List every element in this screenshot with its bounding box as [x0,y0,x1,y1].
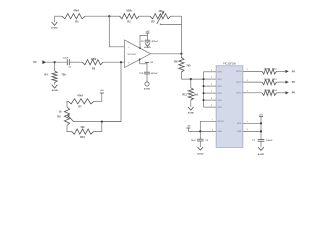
resistor R13 [243,79,286,85]
node: output junction [180,53,182,55]
node P6 output [285,91,295,95]
wire: bias to non-inverting input [102,62,121,121]
svg-text:OUT0: OUT0 [236,71,242,73]
wire: tied input pins trunk [203,72,217,107]
svg-text:AGND: AGND [144,88,151,91]
svg-text:47k4: 47k4 [73,10,79,13]
svg-text:OUT1: OUT1 [236,82,242,84]
svg-text:+5V: +5V [146,31,150,33]
svg-text:VSS: VSS [237,131,242,133]
power -5V (IC) [186,126,216,132]
svg-text:MCP6001: MCP6001 [128,54,136,56]
svg-text:10k: 10k [158,10,163,13]
resistor R11 [182,79,198,100]
svg-text:-5V: -5V [150,62,154,64]
svg-text:+5V: +5V [259,114,263,116]
node: VDD junction [260,122,262,124]
node: divider junction [190,78,192,80]
svg-text:100k: 100k [126,10,132,13]
wire: V- pin [139,59,147,73]
wire: MCLR pin tie [200,119,216,131]
svg-text:100R: 100R [264,90,270,92]
IC pin labels [218,71,243,133]
svg-text:+5V: +5V [100,90,104,92]
ground AGND (R11) [188,100,195,114]
svg-text:75k: 75k [62,73,67,76]
svg-text:MCLR: MCLR [218,121,224,123]
ground AGND (C6) [197,141,204,156]
svg-text:10uF: 10uF [191,140,197,142]
svg-text:100R: 100R [264,79,270,81]
power -5V (op-amp) [145,62,154,64]
resistor R2 [109,10,150,24]
pin numbers (left upper) [211,70,213,107]
ground AGND (C5) [144,42,151,49]
resistor R14 [243,89,286,96]
wire: VDD pin [243,122,261,124]
resistor R1 [55,10,110,24]
op-amp U1 MCP6001 [125,40,151,68]
svg-text:AGND: AGND [197,153,204,156]
svg-text:AGND: AGND [258,153,265,156]
svg-text:-5V: -5V [187,126,191,128]
resistor R10 [67,122,102,139]
capacitor C6 [191,131,209,142]
svg-text:R10: R10 [80,136,85,139]
svg-text:AGND: AGND [188,111,195,114]
node: non-inverting input junction [120,61,122,63]
wire: feedback to inverting input [109,16,124,47]
svg-text:100k: 100k [91,58,97,61]
svg-text:1.0uF: 1.0uF [63,57,69,59]
capacitor C5 [141,40,159,43]
IC U2 PIC10F206 [216,63,243,148]
potentiometer R9 [57,107,73,126]
svg-text:47k4: 47k4 [77,94,83,97]
svg-text:1k0: 1k0 [194,94,199,97]
wire: top chain down to op-amp output [181,16,183,54]
node: bias junction [101,121,103,123]
resistor R4 [44,62,66,82]
svg-text:AGND: AGND [52,89,59,92]
svg-text:100nF: 100nF [266,140,273,142]
resistor R3 [69,58,124,70]
node P4 output [285,70,295,74]
capacitor C7 [252,139,273,142]
ground AGND circle (C12) [144,74,151,91]
svg-text:VDD: VDD [237,123,242,125]
svg-text:470nF: 470nF [151,72,158,75]
potentiometer R5 [150,10,182,24]
svg-text:10k: 10k [80,126,85,129]
svg-text:7k5: 7k5 [186,64,191,67]
svg-text:AGND: AGND [51,27,58,30]
wire: op-amp output [151,53,182,55]
power +5V (IC) [259,114,264,139]
node: AVDD junction [260,130,262,132]
ground AGND (R4) [52,83,59,93]
svg-text:470nF: 470nF [152,40,159,43]
power +5V (op-amp) [146,31,151,33]
svg-text:VSS: VSS [218,131,223,133]
node: feedback junction [108,15,110,17]
node: -5V junction [199,130,201,132]
ground AGND (C7) [258,141,265,156]
resistor R7 [67,94,102,108]
wire: divider node to IC [181,78,203,80]
wire: V+ pin to +5V [139,33,147,49]
capacitor C12 [139,72,158,75]
wire: pot wiper to output node [160,23,181,24]
wire: input [46,61,68,63]
svg-text:PIC10F206: PIC10F206 [223,63,236,66]
wire: AVDD pin [243,130,261,132]
wire: wiper to bias node [74,121,122,123]
power +5V (bias) [100,90,105,101]
node P5 output [285,81,295,85]
resistor R12 [243,68,286,74]
capacitor C1 [63,57,73,68]
svg-text:AGND: AGND [144,46,151,49]
svg-text:100R: 100R [264,68,270,70]
resistor R6 [174,54,191,79]
svg-text:R11: R11 [182,94,187,97]
svg-text:OUT2: OUT2 [236,93,242,95]
node P3 input [33,60,46,64]
ground AGND (R1) [51,16,58,29]
node: input junction [54,61,56,63]
